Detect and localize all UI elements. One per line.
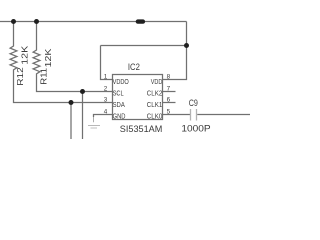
resistor R11 <box>33 22 112 92</box>
junction dot rail R12 <box>11 19 16 24</box>
svg-text:GND: GND <box>113 112 126 121</box>
svg-text:5: 5 <box>167 108 171 115</box>
wire SDA drop to bottom edge <box>70 103 72 140</box>
wire CLK0 pin 5 to C9 <box>163 114 191 116</box>
junction dot rail R11 <box>34 19 39 24</box>
capacitor C9 plates <box>191 109 197 121</box>
svg-text:C9: C9 <box>189 98 198 109</box>
svg-text:R11: R11 <box>39 68 49 85</box>
junction dot SCL <box>80 89 85 94</box>
junction dot SDA <box>69 100 74 105</box>
svg-text:CLK0: CLK0 <box>147 112 163 121</box>
svg-text:SDA: SDA <box>113 100 125 109</box>
svg-text:IC2: IC2 <box>128 62 140 73</box>
svg-text:VDD: VDD <box>151 77 163 86</box>
svg-text:3: 3 <box>104 96 108 103</box>
svg-text:7: 7 <box>167 86 171 93</box>
wire down to VDDO pin 1 <box>101 46 113 80</box>
svg-text:SCL: SCL <box>113 89 124 98</box>
wire top VDD rail <box>0 21 187 23</box>
svg-text:1000P: 1000P <box>181 124 210 135</box>
junction dot VDD node <box>184 43 189 48</box>
ground symbol <box>88 117 100 128</box>
svg-text:12K: 12K <box>20 45 30 65</box>
IC2 box <box>113 75 163 120</box>
svg-text:VDDO: VDDO <box>113 77 129 86</box>
svg-text:1: 1 <box>104 74 108 81</box>
svg-text:R12: R12 <box>15 67 25 86</box>
junction blob on rail <box>136 19 145 23</box>
svg-text:12K: 12K <box>43 48 53 67</box>
svg-text:4: 4 <box>104 108 108 115</box>
wire SCL drop to bottom edge <box>82 92 84 140</box>
svg-text:6: 6 <box>167 96 171 103</box>
svg-text:SI5351AM: SI5351AM <box>120 124 163 135</box>
pin stub 6 CLK1 <box>163 102 176 104</box>
svg-text:2: 2 <box>104 85 108 92</box>
wire GND pin 4 <box>94 115 113 118</box>
resistor R12 <box>10 22 112 103</box>
svg-text:8: 8 <box>167 74 171 81</box>
pin stub 7 CLK2 <box>163 91 176 93</box>
wire C9 to right edge <box>197 114 250 116</box>
wire VDD node horizontal <box>101 45 187 47</box>
wire rail corner down to VDD node and pin 8 <box>163 22 187 80</box>
svg-text:CLK2: CLK2 <box>147 89 163 98</box>
svg-text:CLK1: CLK1 <box>147 100 163 109</box>
